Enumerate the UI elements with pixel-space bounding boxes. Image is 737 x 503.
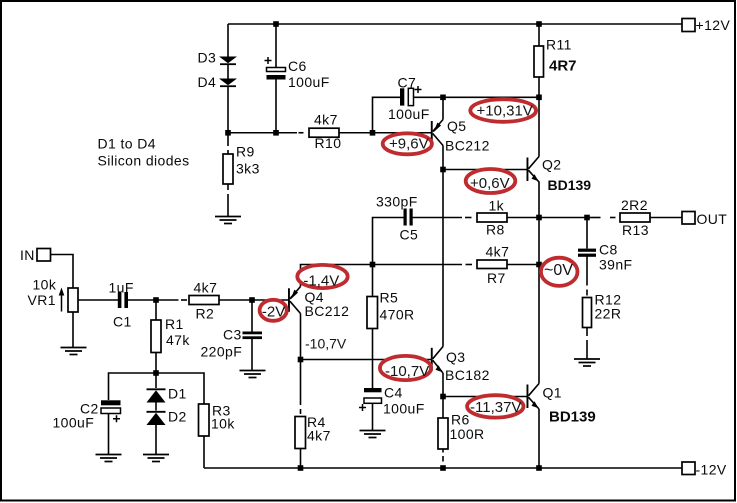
svg-text:C4: C4: [384, 385, 403, 401]
node R11 top rail: [536, 21, 542, 27]
svg-text:100uF: 100uF: [53, 415, 95, 431]
resistor R8: [477, 213, 507, 222]
transistor Q3 BC182 (NPN): [431, 347, 443, 374]
svg-text:Q5: Q5: [447, 118, 466, 134]
ellipse -10,7V: [380, 356, 431, 380]
svg-text:OUT: OUT: [697, 211, 728, 227]
ground below R9: [215, 217, 241, 224]
svg-text:C7: C7: [398, 75, 417, 91]
wire dash left of R13: [610, 217, 616, 219]
node C6 bottom junction: [273, 130, 279, 136]
wire R10 to Q5 base: [339, 132, 431, 134]
terminal IN: [37, 249, 51, 262]
svg-text:+9,6V: +9,6V: [389, 136, 429, 153]
wire VR1 wiper to C1: [78, 299, 118, 301]
wire dash left of R7: [466, 264, 473, 266]
wire R7 to ~0V node: [507, 264, 539, 266]
ellipse +10,31V: [470, 99, 536, 122]
capacitor C8: [578, 249, 596, 257]
node Q3 emitter / Q1 base / R6: [440, 394, 446, 400]
wire OUT node to C8 node: [539, 217, 587, 219]
wire dash left of R10: [299, 132, 304, 134]
svg-text:3k3: 3k3: [236, 161, 260, 177]
wire Q4 collector vertical: [300, 314, 302, 360]
svg-text:-1,4V: -1,4V: [303, 272, 339, 289]
svg-text:~0V: ~0V: [544, 262, 573, 279]
capacitor C3: [243, 332, 263, 340]
diode D2: [147, 412, 166, 425]
resistor R2: [189, 296, 219, 305]
wire C7 right to Q5 emitter node: [414, 96, 443, 98]
wire dash above R9: [227, 150, 229, 154]
node feedback / R5 top: [370, 262, 376, 268]
ground below VR1: [61, 348, 87, 355]
svg-text:+0,6V: +0,6V: [470, 175, 510, 192]
wire C8 top: [586, 218, 588, 249]
svg-text:47k: 47k: [166, 332, 190, 348]
svg-text:VR1: VR1: [28, 292, 56, 308]
wire R11 top: [538, 24, 540, 46]
transistor Q2 BD139 (NPN): [527, 157, 540, 183]
wire Q4 emitter loop: [301, 265, 373, 287]
svg-text:-11,37V: -11,37V: [470, 399, 521, 416]
svg-text:R7: R7: [487, 270, 506, 286]
svg-text:4k7: 4k7: [194, 280, 218, 296]
ground below C4: [360, 431, 386, 438]
capacitor C7: [400, 86, 422, 106]
transistor Q5 BC212 (PNP): [431, 97, 443, 145]
wire C7 left branch: [373, 97, 401, 130]
capacitor C4: [359, 388, 382, 411]
node R4 bottom rail: [298, 465, 304, 471]
wire D3-D4 column top: [227, 24, 229, 57]
svg-text:470R: 470R: [380, 307, 415, 323]
svg-text:Silicon diodes: Silicon diodes: [98, 153, 190, 169]
svg-text:R13: R13: [622, 222, 649, 238]
wire Q2 emitter vertical to OUT node: [538, 182, 540, 218]
wire R9 to ground: [227, 194, 229, 217]
node R6 bottom rail: [440, 465, 446, 471]
wire C3 top: [251, 300, 253, 332]
svg-text:1k: 1k: [489, 197, 505, 213]
svg-text:4R7: 4R7: [549, 57, 577, 74]
svg-text:-10,7V: -10,7V: [385, 363, 429, 380]
capacitor C5: [404, 209, 413, 226]
svg-text:R11: R11: [546, 37, 572, 53]
wire C2 row horizontal: [109, 373, 205, 404]
wire dash above R12: [586, 290, 588, 296]
svg-text:R5: R5: [380, 290, 399, 306]
wire Q2 collector vertical: [538, 97, 540, 156]
wire top +12V rail: [228, 23, 682, 25]
wire dash below R6: [442, 456, 444, 462]
svg-text:R9: R9: [236, 144, 255, 160]
node R11 bottom / Q2 collector: [536, 95, 542, 101]
wire C5 right to R8: [413, 217, 463, 219]
node C1 / R1 junction: [153, 297, 159, 303]
svg-text:BD139: BD139: [548, 177, 592, 193]
wire OUT node down to Q1 collector: [538, 218, 540, 384]
transistor Q4 BC212 (PNP): [288, 287, 301, 314]
svg-text:Q3: Q3: [446, 349, 465, 365]
terminal OUT: [682, 212, 695, 225]
diode D1: [147, 389, 166, 402]
wire Q5 collector to node: [442, 146, 444, 170]
wire Q3 emitter node to Q1 base: [443, 396, 527, 398]
wire R12 bottom: [586, 328, 588, 337]
svg-text:Q2: Q2: [542, 157, 561, 173]
wire Q4 base node to bar: [252, 299, 288, 301]
svg-text:BD139: BD139: [549, 409, 596, 426]
svg-text:C6: C6: [288, 58, 307, 74]
wire Q4 collector node to Q3 base: [301, 359, 432, 361]
wire C6 top: [275, 24, 277, 68]
svg-text:R10: R10: [315, 135, 342, 151]
svg-text:100uF: 100uF: [388, 106, 430, 122]
wire R2 to Q4 base node: [219, 299, 252, 301]
resistor R7: [477, 260, 507, 269]
svg-text:1uF: 1uF: [109, 279, 134, 295]
wire IN to VR1: [51, 255, 74, 289]
wire R5 top: [372, 265, 374, 297]
capacitor C1: [118, 292, 128, 308]
transistor Q1 BD139 (NPN): [527, 384, 540, 410]
svg-text:IN: IN: [20, 247, 35, 263]
wire x=443 vertical down to Q3 collector: [442, 170, 444, 347]
resistor R10: [309, 128, 339, 137]
svg-text:C1: C1: [113, 314, 132, 330]
wire dash above R4: [300, 409, 302, 414]
ellipse ~0V: [541, 258, 578, 286]
wire C6 bottom: [275, 80, 277, 134]
node C8 branch: [584, 215, 590, 221]
wire R5 bottom through to C4: [372, 329, 374, 389]
svg-text:100uF: 100uF: [288, 74, 330, 90]
node C7 branch junction: [370, 130, 376, 136]
svg-text:220pF: 220pF: [201, 343, 243, 359]
resistor R3: [199, 404, 210, 436]
wire Q1 emitter vertical: [538, 409, 540, 468]
wire between D3 and D4: [227, 65, 229, 80]
ellipse +9,6V: [383, 133, 432, 154]
resistor R11: [534, 46, 544, 77]
svg-text:4k7: 4k7: [314, 112, 338, 128]
resistor R6: [438, 418, 448, 449]
svg-text:R2: R2: [196, 306, 215, 322]
svg-text:-12V: -12V: [696, 461, 727, 477]
node Q4 collector / R4: [298, 357, 304, 363]
wire R8 to OUT node: [507, 217, 539, 219]
wire D4 to node row: [227, 87, 229, 133]
wire R13 to OUT terminal: [650, 217, 682, 219]
ground below C2: [96, 455, 122, 462]
svg-text:D1: D1: [168, 386, 187, 402]
potentiometer VR1 wiper arrow: [59, 288, 65, 312]
wire C1 to R1 node: [128, 299, 156, 301]
wire R6 bottom: [442, 449, 444, 453]
resistor R12: [583, 298, 592, 328]
svg-text:-2V: -2V: [262, 304, 285, 321]
svg-text:4k7: 4k7: [486, 244, 510, 260]
terminal -12V: [682, 462, 695, 475]
ellipse -11,37V: [467, 395, 523, 417]
svg-text:39nF: 39nF: [599, 256, 633, 272]
svg-text:330pF: 330pF: [376, 193, 418, 209]
wire below node to R4: [300, 360, 302, 406]
svg-text:+10,31V: +10,31V: [477, 103, 533, 120]
resistor R9: [223, 154, 233, 184]
svg-text:100R: 100R: [450, 426, 485, 442]
wire D1 top: [155, 373, 157, 388]
svg-text:R8: R8: [486, 221, 505, 237]
svg-text:D4: D4: [198, 74, 217, 90]
svg-text:-10,7V: -10,7V: [305, 335, 347, 351]
ellipse +0,6V: [466, 169, 516, 193]
svg-text:R1: R1: [165, 316, 184, 332]
node ~0V junction: [536, 262, 542, 268]
ground below R12: [574, 359, 600, 366]
svg-text:22R: 22R: [595, 305, 622, 321]
svg-text:+12V: +12V: [696, 17, 731, 33]
wire D2 to ground: [155, 425, 157, 455]
wire R1 bottom: [155, 353, 157, 374]
diode D4: [219, 79, 237, 87]
wire R12 to ground: [586, 340, 588, 359]
svg-text:BC212: BC212: [445, 137, 490, 153]
svg-text:4k7: 4k7: [307, 427, 331, 443]
ellipse -1,4V: [297, 265, 347, 288]
svg-text:10k: 10k: [33, 277, 57, 293]
svg-text:100uF: 100uF: [383, 401, 425, 417]
wire R9 top: [227, 136, 229, 147]
wire -12V rail: [204, 467, 682, 469]
capacitor C6: [265, 57, 286, 80]
wire R9 bottom: [227, 184, 229, 190]
resistor R13: [620, 213, 650, 222]
wire R3 bottom to -12V rail: [203, 436, 205, 468]
ground below C3: [240, 371, 266, 378]
wire R1 node to dash: [156, 299, 179, 301]
svg-text:BC182: BC182: [445, 367, 490, 383]
terminal +12V: [682, 19, 695, 32]
svg-text:2R2: 2R2: [621, 197, 648, 213]
wire C8 bottom to dash: [586, 257, 588, 286]
node C6 top rail: [273, 21, 279, 27]
wire VR1 bottom to ground: [72, 312, 74, 348]
node Q5 emitter / C7: [440, 95, 446, 101]
node D4-R9 junction: [225, 130, 231, 136]
wire C5 left branch up from feedback node: [373, 218, 404, 265]
wire feedback node to R7: [373, 264, 463, 266]
svg-text:D3: D3: [198, 50, 217, 66]
wire Q3 emitter to node: [442, 373, 444, 397]
resistor R4: [295, 417, 306, 449]
wire R11 bottom to Q2 collector: [538, 77, 540, 97]
capacitor C2: [101, 400, 121, 422]
svg-text:BC212: BC212: [305, 303, 350, 319]
wire Q5 collector node to Q2 base: [443, 169, 527, 171]
wire R6 top: [442, 397, 444, 419]
ellipse -2V: [260, 300, 287, 321]
diode D3: [219, 57, 237, 65]
wire C2 bottom to ground: [108, 414, 110, 455]
node R1 bottom / D1: [153, 370, 159, 376]
node R2 / Q4 base / C3: [249, 297, 255, 303]
node OUT junction: [536, 215, 542, 221]
wire dash left of R8: [465, 217, 472, 219]
ground below D2: [143, 455, 169, 462]
potentiometer VR1 body: [68, 288, 78, 312]
svg-text:C8: C8: [599, 241, 618, 257]
svg-text:D1 to D4: D1 to D4: [98, 135, 156, 151]
svg-text:C5: C5: [400, 226, 419, 242]
wire D1 to D2: [155, 403, 157, 411]
wire C3 bottom to ground: [251, 339, 253, 371]
wire C8 node to dash: [587, 217, 601, 219]
resistor R5: [367, 297, 378, 329]
wire node row y=133 to R10: [228, 132, 297, 134]
wire dash left of R2: [181, 299, 187, 301]
wire Q5 emitter node to R11 node: [443, 96, 539, 98]
svg-text:D2: D2: [168, 409, 187, 425]
node Q1 emitter rail: [536, 465, 542, 471]
svg-text:10k: 10k: [211, 415, 235, 431]
svg-text:C3: C3: [223, 327, 242, 343]
node Q5 collector / Q2 base: [440, 167, 446, 173]
resistor R1: [151, 320, 161, 353]
svg-text:Q1: Q1: [543, 385, 562, 401]
wire C4 bottom to ground: [372, 404, 374, 431]
wire R1 top: [155, 300, 157, 320]
wire R4 bottom: [300, 449, 302, 469]
